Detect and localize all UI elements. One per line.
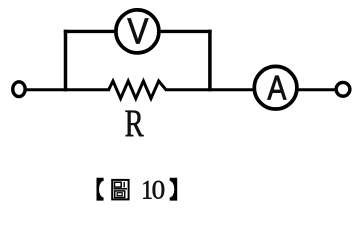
- resistor value label R: [125, 111, 143, 137]
- caption digit 0: [153, 181, 165, 199]
- node right terminal circle: [336, 82, 350, 96]
- wire top branch horizontal: [64, 30, 212, 33]
- caption digit 1: [143, 181, 151, 199]
- voltmeter label V: [128, 19, 149, 44]
- caption character tu (figure): [112, 180, 128, 200]
- node left terminal circle: [13, 82, 25, 97]
- wire left vertical riser: [64, 30, 68, 92]
- resistor R zigzag: [109, 81, 166, 99]
- ammeter label A: [268, 76, 287, 100]
- ammeter U2 circle: [254, 66, 297, 109]
- caption opening bracket: [97, 178, 104, 201]
- caption closing bracket: [170, 178, 178, 201]
- wire main horizontal left segment: [27, 88, 111, 91]
- wire right vertical riser: [208, 30, 212, 92]
- wire main horizontal middle segment: [165, 88, 256, 91]
- voltmeter U1 circle: [116, 10, 159, 53]
- wire main horizontal right segment: [296, 88, 336, 91]
